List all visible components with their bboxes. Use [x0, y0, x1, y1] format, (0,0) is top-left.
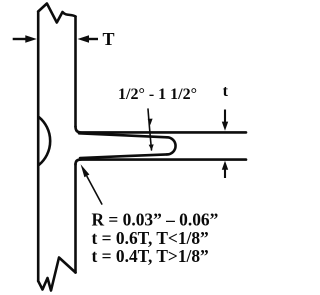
svg-text:t = 0.4T, T>1/8”: t = 0.4T, T>1/8” — [92, 246, 209, 266]
drafted rib rounded tip — [167, 137, 176, 154]
angle leader upper arrowhead — [148, 119, 153, 125]
rib bottom base fillet R — [76, 160, 81, 165]
svg-text:t = 0.6T, T<1/8”: t = 0.6T, T<1/8” — [92, 228, 209, 248]
svg-text:R = 0.03” – 0.06”: R = 0.03” – 0.06” — [92, 209, 219, 229]
drafted rib bottom side — [80, 154, 167, 158]
angle leader arrow line — [148, 109, 152, 150]
rib top base fillet R — [76, 127, 81, 133]
wall top break line — [38, 4, 75, 23]
svg-text:T: T — [103, 29, 115, 49]
dimension t upper arrow — [224, 110, 226, 123]
wall surface arc — [39, 117, 50, 165]
wall right edge lower — [74, 164, 77, 273]
rib top reference line — [81, 131, 246, 134]
wall right edge upper — [74, 17, 77, 127]
wall left edge — [37, 12, 40, 282]
radius R leader arrowhead — [81, 164, 90, 177]
wall bottom break line — [38, 258, 75, 291]
dimension t lower arrow — [224, 168, 226, 178]
svg-text:t: t — [223, 83, 229, 100]
angle leader lower arrowhead — [149, 144, 154, 150]
rib bottom reference line — [81, 158, 247, 161]
dimension T right arrow — [86, 38, 98, 40]
dimension T left arrow — [13, 38, 27, 40]
svg-text:1/2° - 1 1/2°: 1/2° - 1 1/2° — [118, 86, 197, 103]
drafted rib top side — [79, 133, 167, 137]
radius R leader arrow — [87, 177, 102, 205]
